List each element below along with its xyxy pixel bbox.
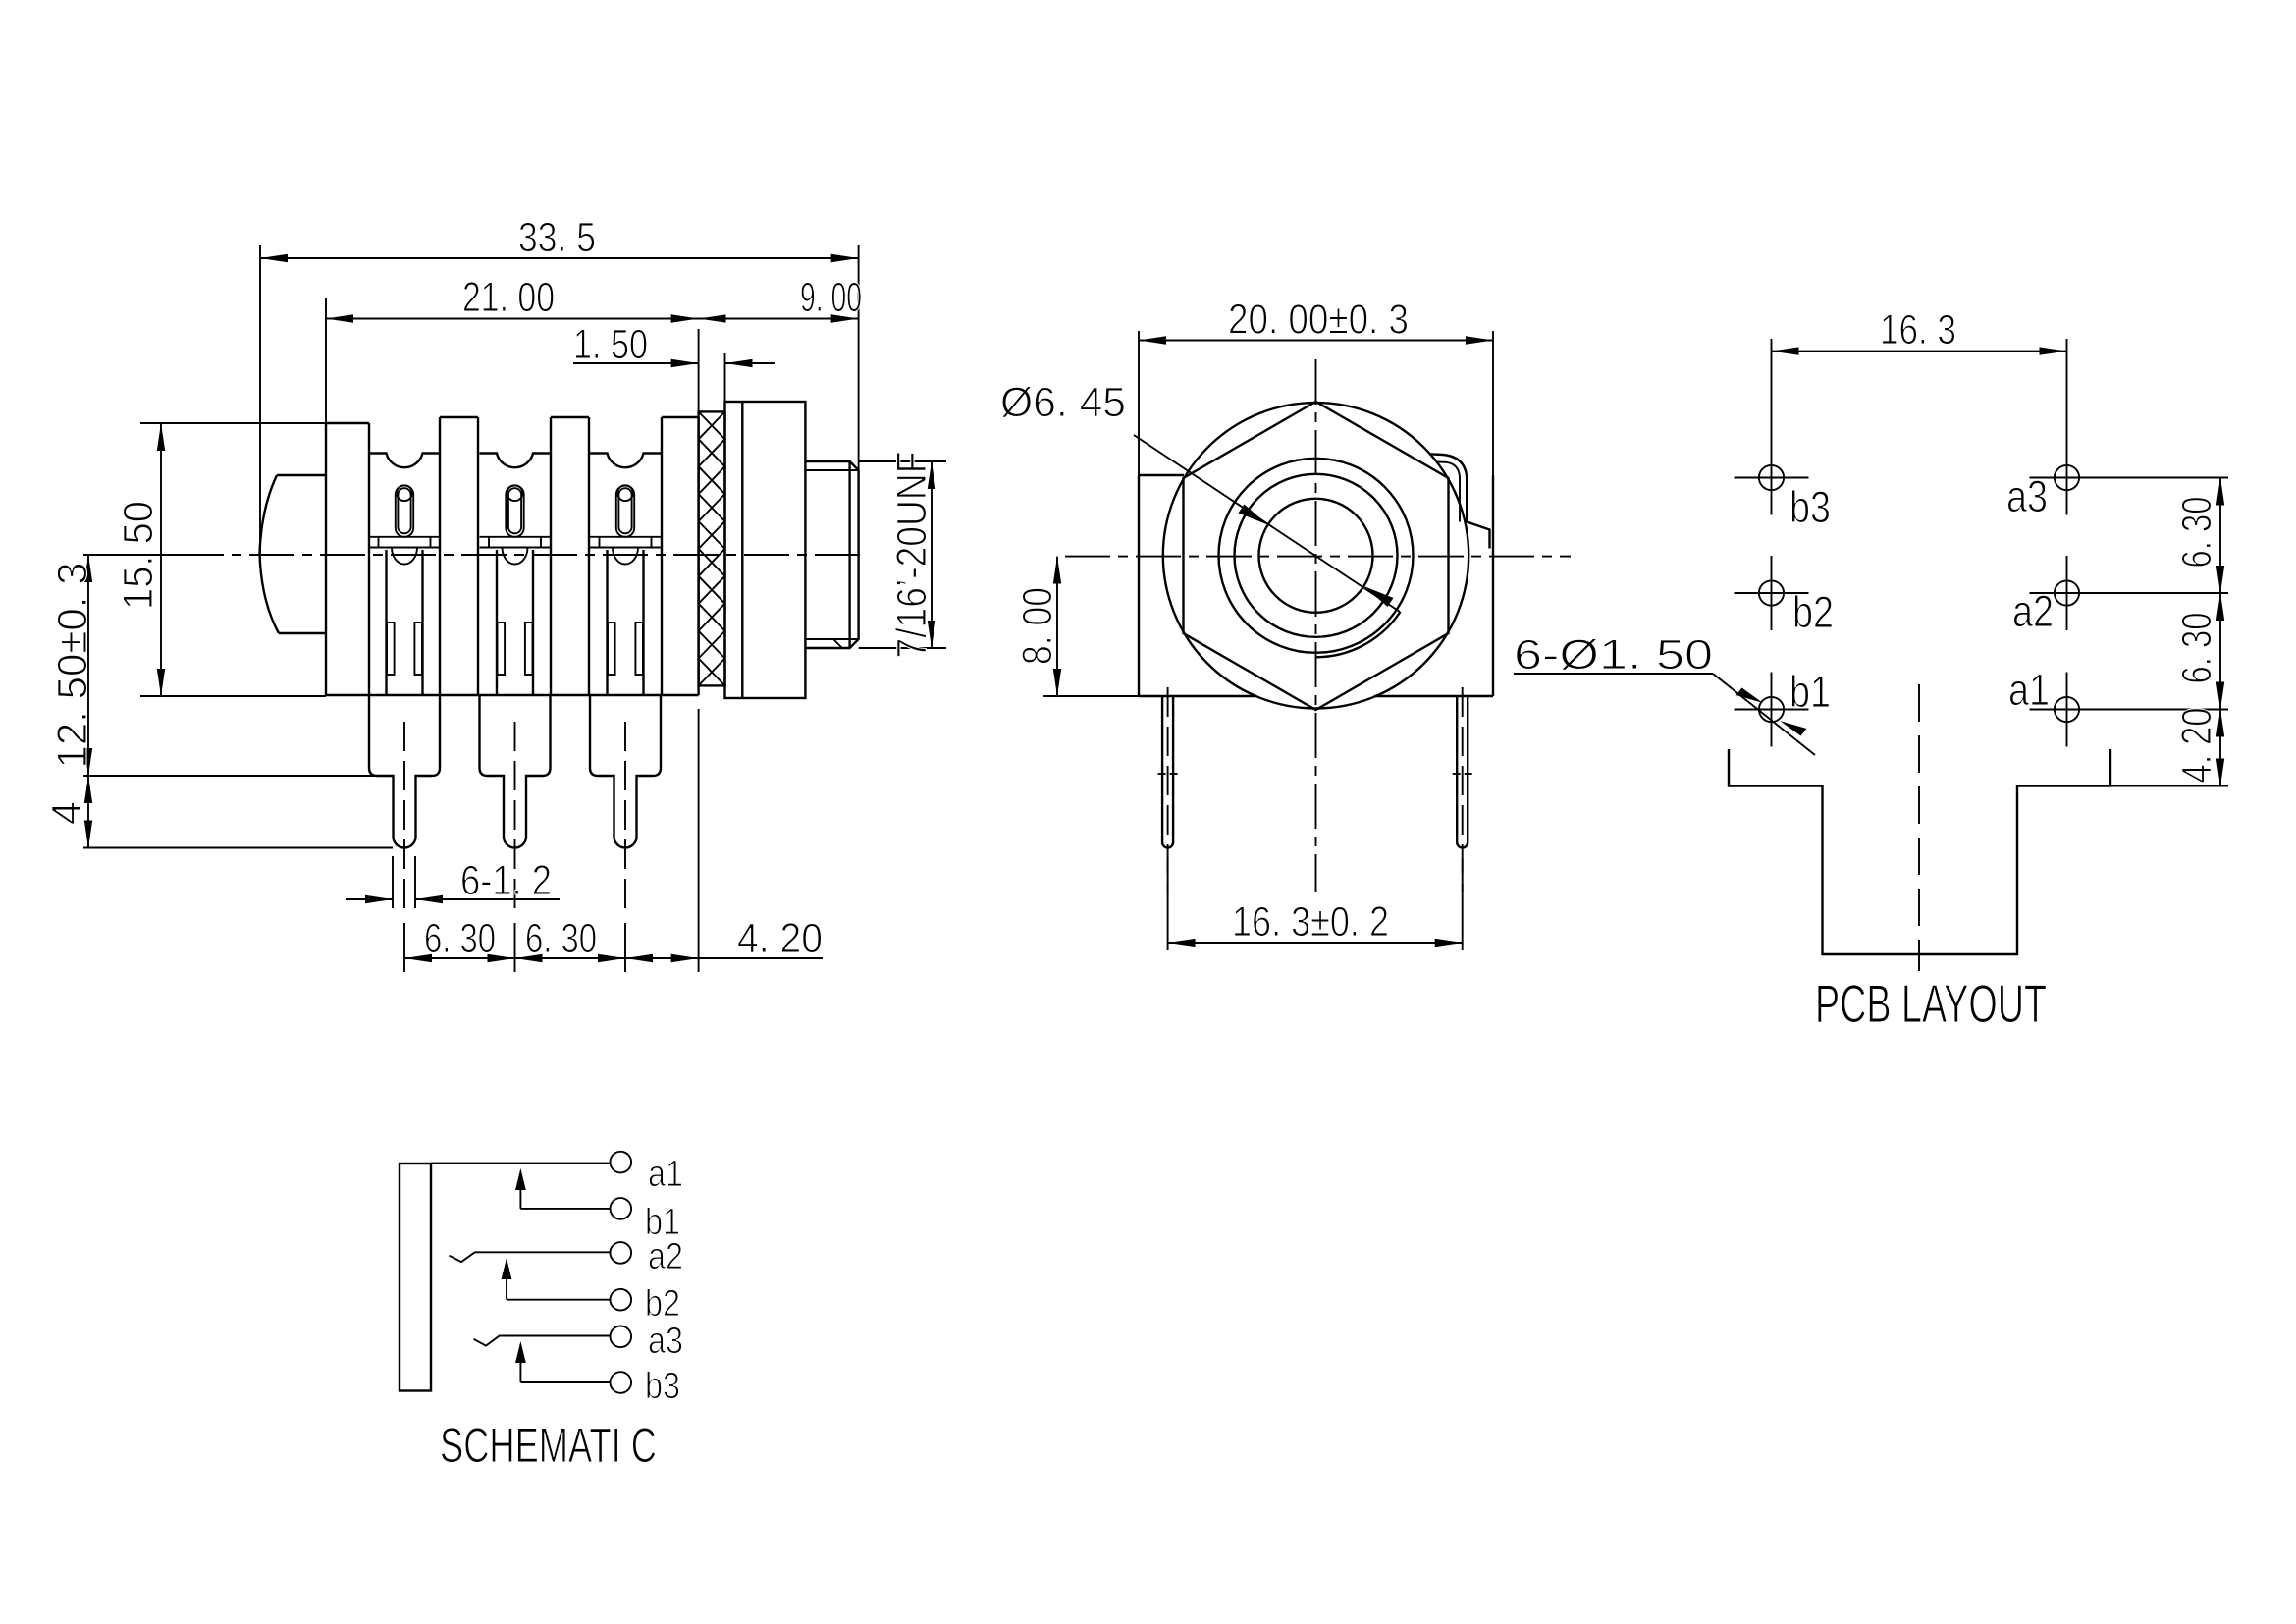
- pcb hole a1: [2055, 697, 2079, 722]
- svg-text:4: 4: [43, 801, 90, 825]
- pin centerline: [514, 722, 516, 915]
- svg-text:a2: a2: [648, 1236, 683, 1277]
- dim 8.00 centerline to bottom: [1043, 695, 1139, 697]
- dim 33.5 overall length: [259, 245, 261, 553]
- side view: contact towers (housing walls): [439, 417, 441, 695]
- svg-text:6. 30: 6. 30: [2173, 613, 2220, 684]
- front view: knurled washer outer circle: [1163, 403, 1468, 708]
- svg-text:20. 00±0. 3: 20. 00±0. 3: [1228, 297, 1409, 344]
- side view: jack housing body outline: [325, 423, 327, 695]
- dim 6.30 pin pitch (left): [403, 923, 405, 972]
- side view: horizontal centerline: [179, 554, 864, 556]
- dim 15.50 body height: [140, 422, 326, 424]
- side view: threaded bushing 7/16-20UNF with chamfers: [805, 461, 858, 648]
- svg-text:1. 50: 1. 50: [573, 321, 648, 368]
- front view: horizontal centerline: [1065, 556, 1571, 558]
- svg-text:33. 5: 33. 5: [518, 214, 596, 261]
- svg-text:8. 00: 8. 00: [1014, 587, 1061, 665]
- dim 4.20 row to board edge: [2219, 710, 2221, 786]
- svg-text:6-1. 2: 6-1. 2: [460, 857, 552, 904]
- dim 6-1.2 pin width: [392, 856, 394, 908]
- svg-text:SCHEMATI C: SCHEMATI C: [440, 1418, 657, 1473]
- svg-text:4. 20: 4. 20: [737, 915, 823, 962]
- front view: bushing outer circle: [1219, 459, 1414, 653]
- schematic: b3 wire with wiper arrow: [520, 1381, 610, 1383]
- schematic: terminal b2: [611, 1289, 632, 1311]
- dim 7/16-20UNF thread callout: [859, 460, 946, 462]
- schematic: terminal b1: [611, 1198, 632, 1219]
- svg-text:a3: a3: [2006, 471, 2048, 521]
- front view: bushing face circle: [1235, 474, 1398, 637]
- dim 6.30 pin pitch (right): [515, 957, 626, 959]
- svg-text:a1: a1: [2008, 665, 2050, 715]
- side view: body right edge: [697, 417, 699, 695]
- schematic: a3 switch contact wire: [474, 1336, 611, 1346]
- dim 4.20 pin to panel face: [625, 957, 699, 959]
- side view: mounting washer and hex nut flange: [725, 402, 806, 698]
- schematic: b1 wire with wiper arrow: [520, 1208, 610, 1210]
- pcb hole a2: [2055, 580, 2079, 605]
- schematic: jack frame bar: [400, 1164, 431, 1391]
- front view: hex nut: [1184, 402, 1449, 710]
- schematic: terminal a1: [611, 1152, 632, 1173]
- dim 20.00±0.3 body width: [1138, 331, 1140, 475]
- side view: body bottom edge: [326, 694, 699, 696]
- front pin centerline: [1462, 687, 1464, 892]
- pcb layout: center dashed line: [1918, 684, 1920, 971]
- front view: square body outline: [1139, 474, 1184, 476]
- svg-text:a3: a3: [648, 1321, 683, 1362]
- front view: release lever tab at top right: [1429, 454, 1490, 548]
- svg-text:16. 3±0. 2: 16. 3±0. 2: [1232, 898, 1389, 946]
- pin centerline: [403, 722, 405, 915]
- side view: insulator slabs below centerline with spring ends: [385, 550, 387, 695]
- side view: release lever (closed end dome): [260, 475, 327, 633]
- svg-text:Ø6. 45: Ø6. 45: [1000, 379, 1126, 426]
- dim 16.3 hole column spacing: [1772, 351, 2067, 352]
- svg-text:b1: b1: [1789, 667, 1831, 717]
- side view: solder pins (wide blade, neck, narrow pin with round tip): [369, 695, 440, 848]
- side view: knurled lock washer (cross hatched): [699, 411, 725, 685]
- schematic: terminal a3: [611, 1326, 632, 1348]
- dim 12.50±0.3 centerline to pin shoulder: [83, 554, 183, 556]
- svg-text:21. 00: 21. 00: [462, 274, 555, 321]
- dim dia 6.45 leader: [1134, 435, 1400, 612]
- pcb layout: board outline: [1729, 749, 2110, 954]
- svg-text:a1: a1: [648, 1154, 683, 1195]
- svg-text:b3: b3: [645, 1366, 680, 1407]
- pcb hole a3: [2055, 465, 2079, 490]
- front view: partial thread arc: [1316, 612, 1401, 657]
- pcb hole b3: [1759, 465, 1784, 490]
- dim 21.00 body length: [325, 298, 327, 423]
- dim 6.30 row spacing upper: [2030, 477, 2229, 479]
- svg-text:6. 30: 6. 30: [2173, 497, 2220, 568]
- svg-text:4. 20: 4. 20: [2173, 708, 2220, 784]
- svg-text:12. 50±0. 3: 12. 50±0. 3: [49, 563, 96, 769]
- svg-text:16. 3: 16. 3: [1880, 306, 1956, 353]
- dim 16.3±0.2 pin spacing front: [1167, 859, 1169, 950]
- front view: jack hole dia 6.45: [1259, 499, 1373, 613]
- schematic: terminal b3: [611, 1372, 632, 1393]
- svg-text:b3: b3: [1789, 482, 1831, 532]
- dim 4 pin length: [83, 847, 393, 849]
- side view: leaf-spring strips under contacts: [369, 536, 440, 538]
- pin centerline: [624, 722, 626, 915]
- front pin centerline: [1167, 687, 1169, 892]
- front view: solder pins: [1162, 696, 1173, 848]
- svg-text:b2: b2: [645, 1283, 680, 1325]
- dim 1.50 washer thickness: [724, 353, 726, 411]
- svg-text:9. 00: 9. 00: [800, 274, 862, 321]
- dim 6.30 row spacing lower: [2219, 593, 2221, 710]
- schematic: b2 wire with wiper arrow: [507, 1299, 611, 1301]
- svg-text:7/16’-20UNF: 7/16’-20UNF: [888, 452, 935, 659]
- side view: contact rivet details (capsule + circle) in each pocket: [396, 486, 413, 537]
- svg-text:6. 30: 6. 30: [525, 915, 597, 962]
- svg-text:6. 30: 6. 30: [424, 915, 496, 962]
- schematic: a2 switch contact wire: [450, 1252, 611, 1262]
- pcb hole b1: [1759, 697, 1784, 722]
- side view: contact pockets with saddle arcs: [369, 454, 440, 468]
- front view: vertical centerline: [1315, 359, 1317, 892]
- svg-text:6-Ø1. 50: 6-Ø1. 50: [1514, 631, 1713, 678]
- dim 9.00 bushing side length: [699, 318, 859, 320]
- pcb hole b2: [1759, 580, 1784, 605]
- svg-text:PCB LAYOUT: PCB LAYOUT: [1815, 973, 2047, 1034]
- schematic: tip contact wire to a1: [431, 1163, 611, 1164]
- svg-text:b2: b2: [1792, 587, 1834, 637]
- schematic: terminal a2: [611, 1242, 632, 1264]
